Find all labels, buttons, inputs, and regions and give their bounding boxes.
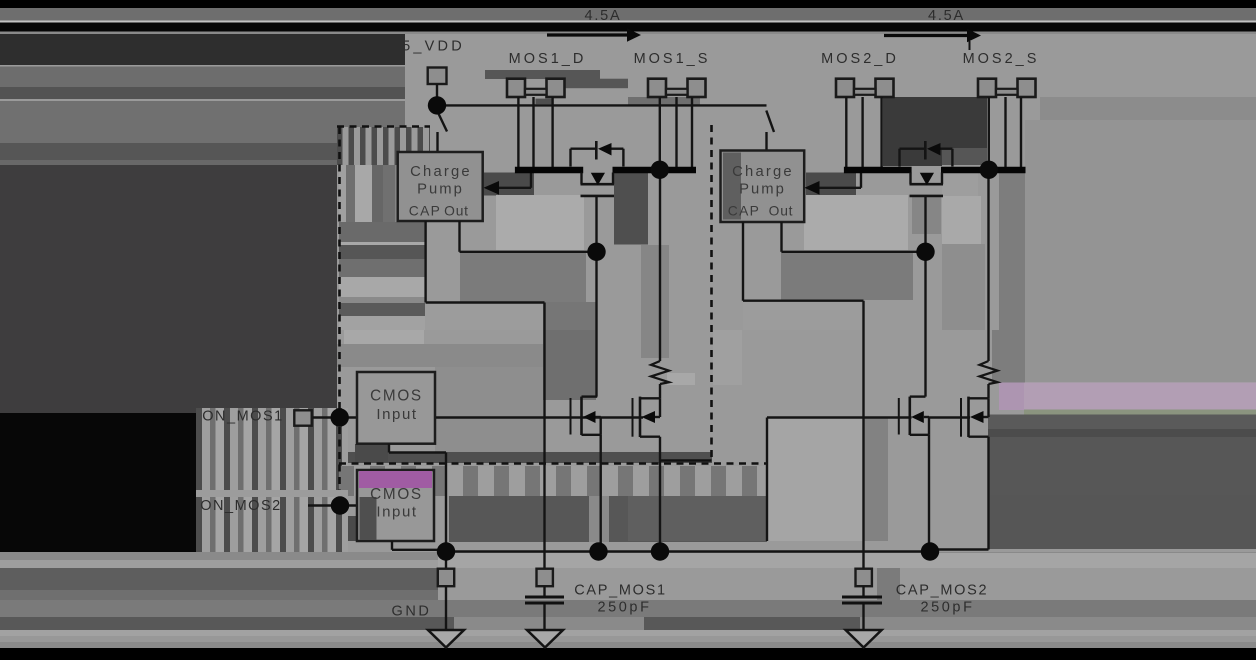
svg-text:MOS1_S: MOS1_S [634,51,711,67]
svg-text:Input: Input [376,504,417,521]
svg-text:MOS2_D: MOS2_D [821,51,899,67]
svg-text:CAP_MOS2: CAP_MOS2 [896,583,989,599]
svg-text:Pump: Pump [417,182,464,198]
svg-text:MOS1_D: MOS1_D [509,51,587,67]
svg-text:ON_MOS1: ON_MOS1 [202,409,283,425]
svg-text:CAP: CAP [728,204,761,219]
svg-text:CAP: CAP [409,204,442,219]
svg-text:Pump: Pump [739,182,786,198]
svg-text:250pF: 250pF [920,600,974,616]
svg-text:4.5A: 4.5A [584,8,621,24]
svg-text:CAP_MOS1: CAP_MOS1 [574,583,667,599]
svg-text:MOS2_S: MOS2_S [963,51,1040,67]
svg-text:Out: Out [444,204,469,219]
svg-text:ON_MOS2: ON_MOS2 [200,498,281,514]
svg-text:CMOS: CMOS [370,486,423,503]
svg-text:250pF: 250pF [597,600,651,616]
svg-text:5_VDD: 5_VDD [402,39,465,55]
svg-text:Input: Input [376,406,417,423]
svg-text:Charge: Charge [410,164,472,180]
svg-text:CMOS: CMOS [370,388,423,405]
svg-text:Out: Out [769,204,794,219]
svg-text:4.5A: 4.5A [928,8,965,24]
svg-text:Charge: Charge [732,164,794,180]
svg-text:GND: GND [391,604,431,620]
